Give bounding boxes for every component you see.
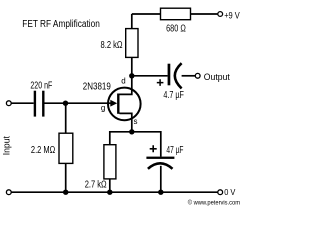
terminal Output (195, 73, 200, 78)
wire drain node to C4.7 (132, 75, 168, 77)
resistor R2.7k 2.7 kohm (104, 145, 116, 179)
wire source line down to R2.7k (109, 131, 111, 145)
svg-text:d: d (121, 77, 125, 86)
capacitor C47 47uF positive plate (146, 157, 174, 159)
svg-text:2N3819: 2N3819 (83, 81, 111, 92)
svg-text:47 µF: 47 µF (166, 145, 183, 156)
node source junction (129, 129, 134, 134)
terminal input ground (6, 190, 11, 195)
transistor channel bar (117, 94, 119, 114)
svg-text:0 V: 0 V (224, 187, 235, 197)
capacitor C220n right plate (42, 91, 44, 117)
wire bottom rail (11, 191, 217, 193)
resistor R8.2k 8.2 kohm (126, 29, 138, 58)
svg-text:8.2 kΩ: 8.2 kΩ (101, 40, 123, 51)
capacitor C220n 220nF left plate (34, 91, 36, 117)
node drain junction (129, 73, 134, 78)
terminal 0V (218, 190, 223, 195)
svg-text:g: g (101, 104, 105, 113)
wire source line down to C47 (160, 131, 162, 157)
node gate junction (63, 101, 68, 106)
wire C47 to bottom rail (160, 166, 162, 192)
wire source line (110, 131, 161, 133)
wire R2.7k to bottom rail (109, 179, 111, 192)
gate arrow (110, 100, 117, 107)
wire R8.2k to drain node (131, 57, 133, 75)
capacitor C4.7 4.7uF positive plate (168, 64, 171, 86)
svg-text:Input: Input (2, 136, 12, 156)
svg-text:2.2 MΩ: 2.2 MΩ (31, 145, 56, 156)
svg-text:© www.petervis.com: © www.petervis.com (188, 199, 240, 206)
wire C220n to gate (45, 102, 117, 104)
resistor R680 680 ohm (161, 8, 191, 20)
svg-text:220 nF: 220 nF (30, 80, 52, 91)
capacitor C47 curved plate (148, 163, 173, 169)
wire R2.2M to bottom rail (65, 163, 67, 192)
wire input terminal to C220n (11, 102, 33, 104)
svg-text:2.7 kΩ: 2.7 kΩ (85, 180, 107, 191)
node bottom rail R2.7k junction (107, 190, 112, 195)
wire gate node to R2.2M (65, 103, 67, 133)
svg-text:Output: Output (204, 72, 230, 83)
terminal +9V (218, 12, 223, 17)
svg-text:s: s (134, 117, 138, 126)
wire top rail left of R680 (132, 13, 161, 15)
capacitor C4.7 curved plate (175, 63, 182, 88)
svg-text:4.7 µF: 4.7 µF (163, 90, 184, 101)
wire trunk rail to R8.2k (131, 14, 133, 29)
gate wire inside circle (107, 102, 112, 104)
node bottom rail C47 junction (158, 190, 163, 195)
node bottom rail R2.2M junction (63, 190, 68, 195)
transistor Q1 2N3819 circle (108, 88, 141, 121)
plus sign of C4.7 (157, 79, 164, 86)
resistor R2.2M 2.2 Mohm (59, 133, 73, 163)
svg-text:FET RF Amplification: FET RF Amplification (22, 19, 100, 30)
svg-text:680 Ω: 680 Ω (166, 23, 186, 34)
drain lead (120, 77, 132, 94)
plus sign of C47 (150, 145, 157, 152)
wire C4.7 to output terminal (182, 75, 196, 77)
terminal Input (6, 101, 11, 106)
wire top rail right of R680 (191, 13, 218, 15)
source lead (120, 113, 132, 131)
svg-text:+9 V: +9 V (224, 10, 240, 20)
